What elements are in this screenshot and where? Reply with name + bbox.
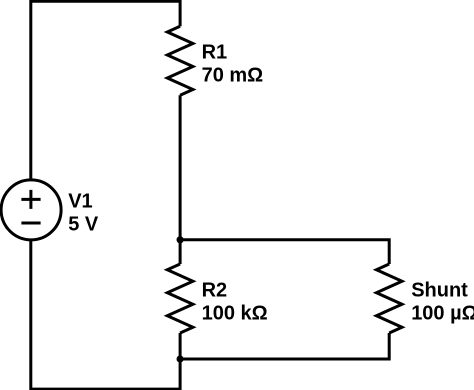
resistor Shunt (zigzag) — [376, 264, 402, 333]
voltage source V1 (circle) — [1, 180, 61, 240]
wire: V1 plus terminal up, top horizontal, down to R1 top lead — [31, 1, 180, 179]
svg-text:R1: R1 — [202, 41, 228, 63]
wire: R2 bottom lead down to node B — [179, 333, 182, 359]
V1 plus symbol — [21, 190, 40, 209]
node B (junction dot) — [177, 355, 184, 362]
svg-text:100 kΩ: 100 kΩ — [202, 303, 268, 325]
svg-text:100 µΩ: 100 µΩ — [411, 303, 474, 325]
resistor R1 (zigzag) — [167, 26, 193, 95]
wire: node A to Shunt top lead — [180, 240, 389, 264]
V1 minus symbol — [21, 222, 40, 225]
svg-text:R2: R2 — [202, 280, 228, 302]
wire: Shunt bottom lead to node B — [180, 333, 389, 359]
wire: R2 top lead from node A — [179, 240, 182, 264]
svg-text:70 mΩ: 70 mΩ — [202, 65, 264, 87]
svg-text:Shunt: Shunt — [411, 280, 468, 302]
node A (junction dot) — [177, 236, 184, 243]
svg-text:5 V: 5 V — [68, 213, 99, 235]
wire: node B down, bottom horizontal, up to V1 minus terminal — [31, 241, 180, 389]
resistor R2 (zigzag) — [167, 264, 193, 333]
svg-text:V1: V1 — [68, 190, 92, 212]
wire: R1 bottom lead down to node A — [179, 95, 182, 240]
